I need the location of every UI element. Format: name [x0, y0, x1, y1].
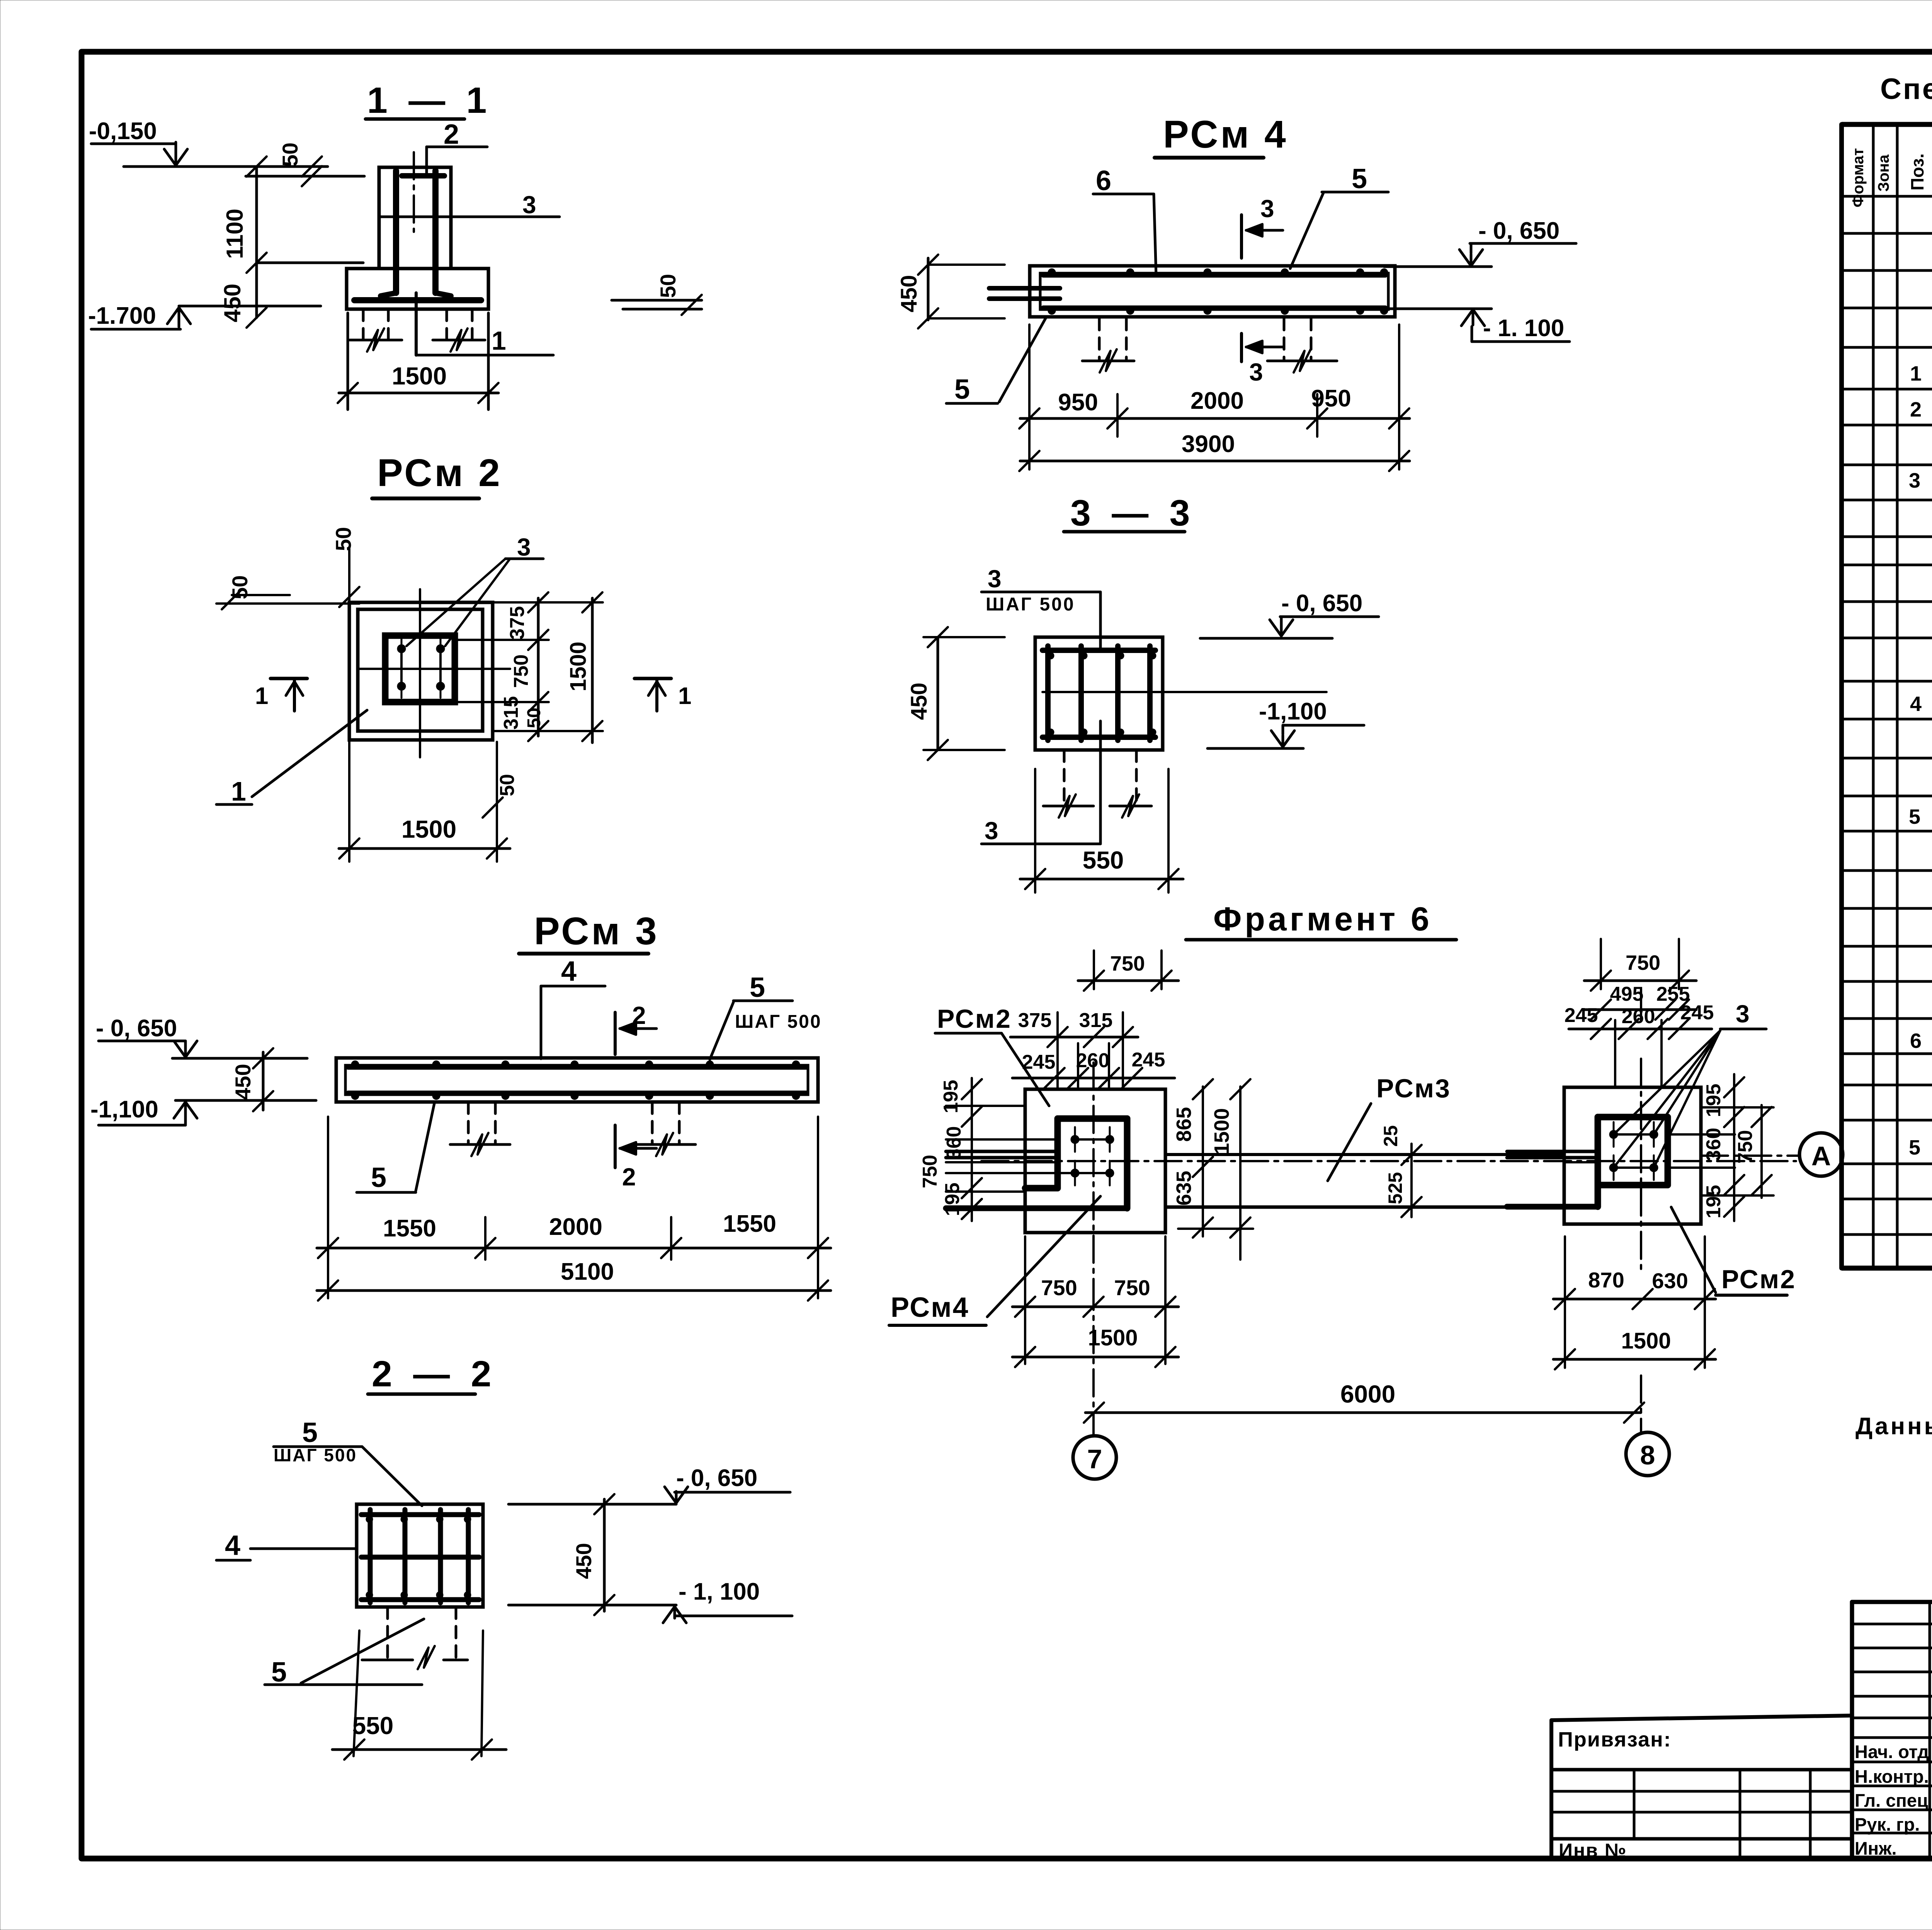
svg-text:- 0, 650: - 0, 650: [1478, 218, 1560, 244]
svg-text:1500: 1500: [566, 641, 591, 691]
left block top dims 375 315: [1056, 1012, 1059, 1089]
svg-text:1500: 1500: [392, 362, 447, 390]
svg-text:315: 315: [1079, 1009, 1113, 1032]
svg-text:245: 245: [1680, 1002, 1714, 1024]
svg-text:Привязан:: Привязан:: [1558, 1728, 1672, 1751]
svg-text:1500: 1500: [1621, 1328, 1671, 1354]
bottom dim 1500 of plan: [348, 740, 350, 862]
svg-text:1: 1: [255, 683, 268, 709]
2-2 concrete outline: [357, 1504, 483, 1607]
dim 450 left (3-3): [937, 637, 939, 750]
svg-text:245: 245: [1565, 1004, 1598, 1027]
beam bottom edge left block: [946, 1206, 1127, 1211]
svg-text:Н.контр.: Н.контр.: [1855, 1766, 1929, 1787]
RSm2 plan horizontal centerline: [359, 668, 510, 670]
svg-text:7: 7: [1087, 1444, 1102, 1474]
svg-text:4: 4: [561, 956, 577, 987]
left block left dims 195 360 195 750: [971, 1078, 973, 1221]
svg-text:950: 950: [1311, 385, 1351, 412]
svg-text:Фрагмент 6: Фрагмент 6: [1213, 901, 1432, 938]
left block bolt ties: [1075, 1138, 1110, 1141]
svg-text:195: 195: [941, 1183, 964, 1216]
svg-text:25: 25: [1380, 1125, 1401, 1147]
svg-text:ШАГ 500: ШАГ 500: [986, 594, 1075, 615]
svg-text:8: 8: [1640, 1440, 1655, 1470]
svg-text:1: 1: [1910, 362, 1922, 385]
svg-text:-1,100: -1,100: [90, 1096, 158, 1123]
right block top dims 495 255: [1640, 989, 1642, 1020]
svg-text:6000: 6000: [1340, 1380, 1395, 1408]
right block bolts: [1609, 1130, 1618, 1139]
left block top dims 245 260 245: [1077, 1043, 1079, 1089]
RSm3 bar dots: [351, 1061, 359, 1068]
dim 1500 (vertical, strip): [1239, 1087, 1242, 1260]
svg-text:3 — 3: 3 — 3: [1070, 493, 1195, 534]
svg-text:450: 450: [571, 1543, 596, 1579]
svg-text:750: 750: [510, 655, 532, 688]
svg-text:50: 50: [524, 707, 544, 728]
dim chain 865/635 left of strip: [1202, 1087, 1204, 1236]
right block top dims 245 260 245: [1614, 1020, 1616, 1087]
right block heavy column: [1598, 1114, 1668, 1121]
level line -0.150: [124, 165, 328, 168]
svg-text:РСм 4: РСм 4: [1163, 113, 1288, 156]
dim 3900: [1020, 460, 1410, 463]
svg-text:870: 870: [1588, 1268, 1624, 1292]
RSm3 slab outline: [336, 1058, 818, 1102]
svg-text:5: 5: [1909, 1136, 1920, 1159]
svg-text:3: 3: [988, 565, 1002, 593]
bottom tie line of vertical dims: [1178, 1228, 1253, 1230]
axis 8 vertical centerline: [1640, 1059, 1642, 1275]
signature table rows: [1852, 1623, 1932, 1626]
svg-text:Гл. спец: Гл. спец: [1855, 1790, 1928, 1811]
svg-text:2000: 2000: [1190, 388, 1244, 414]
dim 1500 under 1-1: [347, 313, 349, 410]
svg-text:375: 375: [1018, 1009, 1052, 1032]
svg-text:- 0, 650: - 0, 650: [96, 1015, 177, 1042]
svg-text:3: 3: [985, 817, 998, 845]
svg-text:6: 6: [1910, 1029, 1922, 1053]
svg-text:- 0, 650: - 0, 650: [1281, 590, 1362, 617]
svg-text:ШАГ 500: ШАГ 500: [735, 1012, 822, 1032]
svg-text:5: 5: [271, 1657, 287, 1688]
spec table vertical lines: [1839, 124, 1844, 1268]
3-3 concrete outline: [1035, 637, 1163, 750]
svg-text:375: 375: [506, 606, 529, 640]
level ref -0.650 (2-2): [509, 1503, 676, 1506]
dim 50 right of footing: [612, 299, 702, 302]
section mark 3 bottom (RSm4): [1240, 333, 1243, 362]
svg-text:260: 260: [1622, 1005, 1655, 1028]
svg-text:2: 2: [622, 1163, 636, 1191]
svg-text:195: 195: [1702, 1185, 1725, 1219]
right block dim 1500: [1553, 1358, 1716, 1361]
svg-text:ШАГ 500: ШАГ 500: [274, 1445, 357, 1465]
dim extension top-right: [493, 601, 603, 604]
svg-text:А: А: [1811, 1141, 1831, 1171]
svg-text:3: 3: [1249, 358, 1263, 386]
svg-text:Рук. гр.: Рук. гр.: [1855, 1814, 1920, 1835]
svg-text:-1.700: -1.700: [88, 303, 156, 329]
svg-text:-0,150: -0,150: [89, 118, 157, 145]
axis circle 8: [1626, 1432, 1669, 1476]
RSm3 top rebar: [348, 1065, 806, 1070]
right block right dims 195 360 750 195: [1733, 1074, 1735, 1221]
RSm4 bottom rebar: [1043, 306, 1385, 311]
2-2 anchor dashed lines: [386, 1607, 389, 1658]
column rebar left: [393, 171, 399, 293]
svg-text:50: 50: [496, 774, 519, 796]
svg-text:550: 550: [1083, 846, 1124, 874]
dim 450 left (RSm4): [927, 258, 930, 320]
spec table horizontal lines: [1842, 122, 1932, 127]
RSm2 plan vertical centerline: [419, 589, 421, 757]
svg-text:3: 3: [1909, 469, 1920, 492]
svg-text:245: 245: [1132, 1049, 1165, 1071]
right inner dim chain 375-750-375: [537, 598, 540, 736]
axis A horizontal centerline: [981, 1160, 1796, 1162]
svg-text:4: 4: [225, 1530, 240, 1561]
svg-text:5100: 5100: [561, 1258, 614, 1285]
3-3 anchor break lines: [1043, 805, 1094, 808]
level ref -1.100 (2-2): [509, 1604, 676, 1607]
anchor break lines: [350, 339, 402, 342]
svg-text:750: 750: [919, 1155, 941, 1189]
3-3 bottom bar: [1043, 735, 1155, 740]
right dims extension lines: [1668, 1133, 1735, 1136]
svg-text:2: 2: [1910, 398, 1922, 421]
2-2 bar dots: [366, 1516, 373, 1523]
svg-text:5: 5: [750, 972, 765, 1003]
RSm3 inner frame: [345, 1065, 808, 1095]
axis 7 vertical centerline: [1092, 1063, 1095, 1283]
svg-text:195: 195: [940, 1080, 962, 1114]
RSm2 anchor bolt dots: [397, 644, 406, 653]
RSm4 anchor break lines: [1082, 360, 1134, 362]
vertical dim line 1100/450: [255, 167, 258, 318]
svg-text:865: 865: [1172, 1107, 1196, 1142]
RSm3 strip bottom edge: [1165, 1206, 1564, 1209]
svg-text:РСм4: РСм4: [891, 1292, 969, 1323]
dim 6000 between axes: [1085, 1411, 1641, 1414]
2-2 horizontal bars: [361, 1512, 479, 1517]
inventory mini table: [1551, 1768, 1852, 1772]
column rebar right: [432, 171, 439, 293]
svg-text:РСм 2: РСм 2: [377, 451, 502, 495]
level ref -0.650 (RSm4): [1384, 265, 1492, 268]
RSm3 anchor break lines: [450, 1143, 510, 1146]
column outline 1-1: [379, 167, 451, 269]
svg-text:260: 260: [1076, 1049, 1110, 1072]
svg-text:1 — 1: 1 — 1: [367, 80, 492, 121]
svg-text:3: 3: [522, 191, 536, 219]
right block bottom dims 870 630: [1564, 1236, 1566, 1368]
left block dim 1500: [1012, 1356, 1179, 1359]
dim 450 (2-2): [603, 1499, 606, 1611]
svg-text:3: 3: [517, 533, 531, 561]
svg-text:-1,100: -1,100: [1259, 698, 1327, 725]
RSm2 plan second square: [358, 609, 483, 731]
dim 450 (RSm3): [262, 1052, 265, 1110]
footing bottom rebar mat: [354, 297, 481, 303]
svg-text:450: 450: [231, 1064, 255, 1100]
svg-text:5: 5: [1352, 163, 1367, 194]
right block step lines: [1595, 1185, 1601, 1207]
svg-text:6: 6: [1096, 165, 1111, 196]
svg-text:1500: 1500: [1088, 1325, 1138, 1350]
svg-text:245: 245: [1022, 1051, 1056, 1073]
dim chain 1550-2000-1550: [327, 1117, 329, 1298]
svg-text:750: 750: [1626, 951, 1660, 974]
RSm4 slab outline: [1030, 266, 1395, 317]
svg-text:РСм3: РСм3: [1376, 1074, 1451, 1103]
right RSm2 block outer square: [1564, 1087, 1701, 1224]
3-3 bar dots: [1047, 652, 1054, 659]
svg-text:450: 450: [896, 275, 922, 313]
RSm4 top rebar: [1043, 273, 1385, 278]
svg-text:РСм2: РСм2: [937, 1004, 1012, 1034]
svg-text:1550: 1550: [383, 1215, 436, 1242]
3-3 vertical bars: [1045, 646, 1051, 740]
svg-text:360: 360: [943, 1126, 965, 1160]
3-3 top bar: [1043, 648, 1155, 653]
dim chain 950-2000-950: [1028, 325, 1031, 469]
title block signature table outline: [1850, 1602, 1854, 1858]
svg-text:195: 195: [1702, 1084, 1725, 1117]
dim line 450 extension: [257, 262, 363, 264]
left block bolts: [1071, 1135, 1079, 1144]
level ref -0.650 (RSm3): [172, 1057, 307, 1060]
svg-text:- 1, 100: - 1, 100: [679, 1578, 760, 1605]
footing outline 1-1: [347, 269, 488, 309]
svg-text:630: 630: [1652, 1269, 1688, 1293]
left block bottom dims 750 750: [1024, 1236, 1026, 1364]
2-2 vertical bars: [368, 1510, 373, 1603]
RSm3 anchor dashed lines: [467, 1102, 470, 1143]
svg-text:550: 550: [352, 1712, 394, 1740]
offset line 50 below top: [246, 175, 364, 178]
RSm3 strip top edge: [1165, 1153, 1564, 1156]
svg-text:750: 750: [1110, 952, 1145, 975]
svg-text:2 — 2: 2 — 2: [372, 1354, 497, 1394]
svg-text:1100: 1100: [222, 209, 248, 259]
svg-text:1: 1: [492, 326, 506, 355]
svg-text:Зона: Зона: [1875, 154, 1892, 192]
svg-text:4: 4: [1910, 692, 1922, 716]
svg-text:5: 5: [302, 1417, 318, 1448]
bolt connect lines: [400, 649, 403, 686]
svg-text:5: 5: [1909, 805, 1920, 828]
level ref line -1.100 (3-3): [1207, 747, 1303, 750]
level line -1.700: [179, 305, 321, 308]
section cut mark 1 right: [634, 677, 671, 680]
svg-text:3: 3: [1736, 1000, 1750, 1028]
svg-text:Формат: Формат: [1850, 148, 1867, 207]
dim 525 strip: [1410, 1144, 1413, 1217]
svg-text:450: 450: [906, 683, 932, 720]
right block top dim 750: [1600, 939, 1602, 989]
dim 5100: [317, 1289, 831, 1292]
section mark 2 bottom (RSm3): [614, 1125, 617, 1168]
svg-text:РСм2: РСм2: [1721, 1265, 1796, 1294]
svg-text:50: 50: [656, 274, 680, 298]
svg-text:РСм 3: РСм 3: [534, 910, 659, 953]
svg-text:Данный лист см. совместно с ли: Данный лист см. совместно с листом 4.: [1855, 1413, 1932, 1440]
svg-text:- 1. 100: - 1. 100: [1483, 315, 1564, 342]
RSm2 plan outer square: [349, 602, 493, 740]
svg-text:Инв №: Инв №: [1559, 1840, 1627, 1861]
3-3 middle tie line: [1043, 691, 1327, 693]
level ref -1.100 (RSm3): [175, 1099, 316, 1102]
svg-text:2000: 2000: [549, 1214, 602, 1240]
svg-text:1550: 1550: [723, 1211, 776, 1237]
svg-text:5: 5: [954, 374, 970, 405]
level ref -1.100 (RSm4): [1388, 308, 1492, 310]
footing vertical stub: [415, 293, 418, 355]
svg-text:Нач. отд: Нач. отд: [1855, 1741, 1929, 1762]
RSm4 left protruding bars: [989, 286, 1060, 291]
right outer dim 1500: [591, 598, 594, 743]
svg-text:1: 1: [678, 683, 691, 709]
level ref line -0.650 (3-3): [1200, 637, 1332, 640]
svg-text:1500: 1500: [1210, 1108, 1233, 1155]
dim 550 (3-3): [1034, 769, 1036, 893]
2-2 anchor break lines: [362, 1659, 413, 1661]
centerline into circle A: [1701, 1155, 1799, 1157]
RSm4 bar dots: [1048, 269, 1056, 276]
svg-text:Спецификация к РСм 2 ÷ РСм 4: Спецификация к РСм 2 ÷ РСм 4: [1880, 73, 1932, 105]
svg-text:635: 635: [1172, 1171, 1196, 1206]
section cut mark 1 left: [270, 677, 307, 680]
svg-text:Инж.: Инж.: [1855, 1838, 1897, 1859]
left RSm2 block outer square: [1025, 1089, 1165, 1233]
beam edges entering left block: [946, 1150, 1059, 1153]
RSm4 inner frame: [1040, 273, 1388, 309]
privyazan block outline: [1549, 1720, 1553, 1858]
left dims extension lines: [946, 1105, 1025, 1107]
svg-text:Поз.: Поз.: [1907, 153, 1927, 190]
right block bolt ties: [1614, 1133, 1654, 1136]
svg-text:750: 750: [1114, 1275, 1150, 1300]
svg-text:50: 50: [331, 527, 355, 551]
svg-text:750: 750: [1041, 1275, 1077, 1300]
left block heavy column: [1058, 1115, 1127, 1122]
label 3 leader line: [379, 216, 560, 218]
svg-text:2: 2: [444, 119, 459, 150]
beam edges entering right block: [1507, 1150, 1598, 1153]
left block top dim 750: [1093, 951, 1095, 989]
svg-text:750: 750: [1734, 1130, 1757, 1164]
RSm3 bottom rebar: [348, 1091, 806, 1096]
svg-text:525: 525: [1384, 1172, 1406, 1204]
svg-text:50: 50: [278, 143, 302, 167]
axis circle A: [1799, 1133, 1843, 1176]
svg-text:450: 450: [219, 284, 245, 322]
label 1 leader: [416, 354, 553, 357]
svg-text:495: 495: [1610, 983, 1644, 1005]
svg-text:3: 3: [1260, 195, 1274, 223]
svg-text:5: 5: [371, 1162, 386, 1193]
dim 550 (2-2): [354, 1631, 359, 1756]
signature table verticals: [1929, 1602, 1931, 1858]
embed plate top: [402, 173, 444, 179]
axis circle 7: [1073, 1436, 1116, 1479]
RSm2 plan column heavy square: [385, 636, 455, 702]
3-3 anchor dashed lines: [1063, 750, 1066, 805]
svg-text:950: 950: [1058, 389, 1098, 416]
svg-text:3900: 3900: [1182, 431, 1235, 457]
svg-text:1: 1: [231, 776, 246, 806]
RSm4 anchor dashed lines: [1098, 318, 1101, 359]
column centerline: [413, 152, 415, 232]
svg-text:1500: 1500: [401, 815, 456, 843]
anchor bolts dashed below footing: [362, 309, 365, 338]
